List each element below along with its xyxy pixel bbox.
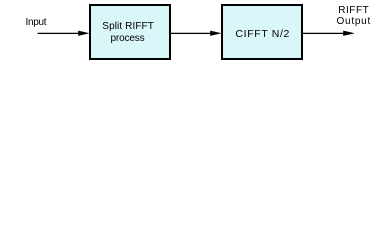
label Split RIFFT (line 1 in box 1) — [102, 22, 154, 32]
wire: arrow box 1 to box 2 — [171, 31, 222, 36]
block: CIFFT N/2 — [221, 4, 303, 60]
label process (line 2 in box 1) — [111, 34, 145, 44]
wire: output arrow from box 2 — [303, 31, 355, 36]
label Output (output line 2) — [337, 17, 372, 27]
label RIFFT (output line 1) — [338, 6, 369, 16]
label CIFFT N/2 (box 2) — [235, 29, 290, 39]
wire: input arrow into box 1 — [38, 31, 90, 36]
label Input — [26, 18, 47, 28]
block: Split RIFFT process — [89, 4, 171, 60]
